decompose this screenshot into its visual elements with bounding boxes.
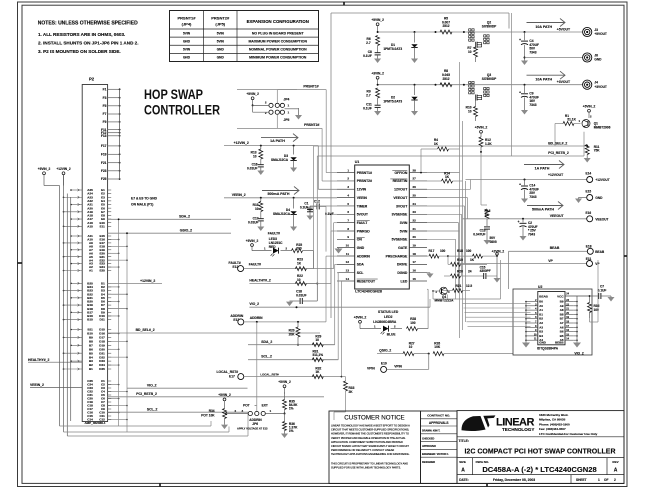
- svg-text:E11: E11: [100, 224, 106, 228]
- svg-text:JP6: JP6: [252, 422, 258, 426]
- svg-text:HOP SWAP: HOP SWAP: [144, 87, 203, 102]
- svg-text:APPROVED: APPROVED: [422, 445, 436, 448]
- net SDA_2 wire mid: [248, 340, 335, 345]
- diode D2 1PMT5.0AT3: [383, 85, 418, 116]
- resistor R9 2.7: [366, 88, 379, 98]
- svg-text:NOMINAL POWER CONSUMPTION: NOMINAL POWER CONSUMPTION: [249, 48, 307, 52]
- svg-text:Fax: (408)434-0507: Fax: (408)434-0507: [539, 427, 566, 431]
- capacitor C15 4300PF: [480, 264, 501, 282]
- svg-text:DRIVE: DRIVE: [397, 263, 408, 267]
- svg-text:R19: R19: [457, 258, 463, 262]
- svg-text:POT: POT: [243, 404, 250, 408]
- svg-text:JP4: JP4: [284, 98, 290, 102]
- svg-text:REV: REV: [612, 460, 618, 464]
- capacitor C17 0.01UF: [248, 212, 264, 232]
- svg-text:1630 McCarthy Blvd.: 1630 McCarthy Blvd.: [539, 413, 569, 417]
- capacitor C8 0.1UF: [363, 46, 381, 64]
- svg-text:1.2K: 1.2K: [485, 142, 492, 146]
- svg-text:51.1K: 51.1K: [567, 118, 576, 122]
- svg-text:Friday, December 05, 2003: Friday, December 05, 2003: [493, 478, 535, 482]
- svg-text:1. ALL RESISTORS ARE IN OHMS,: 1. ALL RESISTORS ARE IN OHMS, 0603.: [38, 32, 125, 37]
- svg-text:PRSNT2#: PRSNT2#: [211, 16, 230, 21]
- svg-text:10K: 10K: [434, 345, 441, 349]
- svg-text:SI7890DP: SI7890DP: [482, 24, 497, 28]
- svg-text:BLUE: BLUE: [387, 332, 396, 336]
- resistor R32 1K: [312, 366, 323, 378]
- svg-text:QSIO_2: QSIO_2: [379, 349, 391, 353]
- svg-text:7343: 7343: [529, 103, 536, 107]
- svg-text:BEAB: BEAB: [595, 250, 605, 254]
- terminal E17 LOCAL_RST#: [217, 370, 342, 379]
- net SDA_2 wire from connector: [108, 215, 231, 220]
- svg-text:A1: A1: [89, 269, 93, 273]
- svg-text:24: 24: [413, 202, 417, 206]
- svg-text:PRECHARGE: PRECHARGE: [386, 254, 408, 258]
- svg-text:1: 1: [347, 168, 349, 172]
- svg-text:5: 5: [347, 202, 349, 206]
- notes text block: [38, 21, 139, 55]
- svg-text:1K: 1K: [470, 258, 475, 262]
- resistor R1 51.1K: [555, 114, 581, 146]
- svg-text:PRSNT2#: PRSNT2#: [357, 179, 372, 183]
- svg-text:EXPANSION CONFIGURATION: EXPANSION CONFIGURATION: [247, 19, 309, 24]
- svg-text:SMAJ12CA: SMAJ12CA: [273, 212, 291, 216]
- svg-text:VEEOUT: VEEOUT: [393, 196, 408, 200]
- frame zone tick bottom: [160, 483, 487, 486]
- svg-text:F3: F3: [103, 96, 107, 100]
- svg-text:+5VIN_2: +5VIN_2: [246, 239, 259, 243]
- svg-text:SCL_2: SCL_2: [261, 355, 272, 359]
- terminal E15 GND: [575, 190, 603, 204]
- connector P2 bottom label AMP_352068-1: [84, 421, 105, 425]
- svg-text:18: 18: [413, 252, 417, 256]
- power flag +5VIN_2 at JP4: [246, 92, 259, 106]
- svg-text:GND: GND: [217, 48, 225, 52]
- wire U1 PWRGD to HEALTHY net: [306, 231, 337, 284]
- svg-text:NOTES: UNLESS OTHERWISE SPECI: NOTES: UNLESS OTHERWISE SPECIFIED: [38, 21, 138, 27]
- jumper JP6 POT EXT: [229, 404, 285, 431]
- svg-text:(JP4): (JP4): [182, 22, 192, 27]
- power flag +5VIN_2 at R34: [218, 393, 231, 408]
- flow arrow 500mA PATH right: [527, 202, 563, 212]
- resistor R18 100: [448, 249, 498, 258]
- terminal E19 VPIN: [367, 354, 429, 373]
- svg-text:VEEOUT: VEEOUT: [595, 217, 608, 221]
- ground at JP4 JP5: [285, 105, 303, 119]
- svg-text:1A PATH: 1A PATH: [535, 166, 550, 170]
- power flag +5VIN_2 at R12: [475, 126, 488, 138]
- svg-text:ON MALE (P1): ON MALE (P1): [131, 203, 153, 207]
- svg-text:2: 2: [265, 100, 267, 104]
- svg-text:LOCAL_RST#: LOCAL_RST#: [260, 372, 279, 376]
- svg-text:BEBB: BEBB: [555, 341, 564, 345]
- svg-text:5VIN: 5VIN: [183, 48, 191, 52]
- svg-text:SI7890DP: SI7890DP: [482, 77, 497, 81]
- svg-text:5VIN: 5VIN: [183, 31, 191, 35]
- terminal E14 +12VOUT: [586, 172, 610, 183]
- svg-text:STATUS LED: STATUS LED: [378, 310, 399, 314]
- svg-text:CIRCUIT BOARD LAYOUT MAY SIGNI: CIRCUIT BOARD LAYOUT MAY SIGNIFICANTLY A…: [331, 444, 409, 448]
- capacitor C1 at TIMER: [300, 202, 337, 221]
- svg-text:Milpitas, CA 95035: Milpitas, CA 95035: [539, 418, 566, 422]
- svg-text:+: +: [519, 91, 521, 95]
- svg-text:SDA: SDA: [357, 263, 365, 267]
- svg-text:E19: E19: [381, 361, 387, 365]
- svg-text:PERFORMANCE OR RELIABILITY. C: PERFORMANCE OR RELIABILITY. CONTACT LINE…: [331, 448, 394, 452]
- svg-text:R17: R17: [429, 249, 435, 253]
- svg-text:GND: GND: [183, 39, 191, 43]
- svg-text:E17: E17: [229, 375, 235, 379]
- svg-text:DC458A-A (-2) * LTC4240CGN28: DC458A-A (-2) * LTC4240CGN28: [482, 465, 596, 474]
- title block customer notice box: [329, 411, 421, 484]
- svg-text:9: 9: [347, 235, 349, 239]
- svg-text:F1: F1: [103, 88, 107, 92]
- svg-text:100: 100: [466, 249, 472, 253]
- transistor Q1 MMBT2906: [582, 115, 611, 130]
- label STATUS LED: [373, 310, 399, 324]
- terminal E18 BEAB: [550, 245, 605, 255]
- net VIO_2 wire mid: [249, 302, 430, 308]
- svg-text:11: 11: [346, 252, 350, 256]
- flow arrow 1A PATH left: [261, 134, 298, 144]
- svg-text:+5VOUT: +5VOUT: [557, 28, 571, 32]
- top bus wire y13: [331, 13, 512, 156]
- svg-text:+5VIN_2: +5VIN_2: [278, 380, 291, 384]
- net label FAULT# at LED3: [268, 232, 280, 236]
- svg-text:+12VIN_2: +12VIN_2: [56, 167, 70, 171]
- wires into U2 left: [463, 303, 531, 326]
- capacitor C13 0.047UF 50V 0805: [473, 227, 497, 245]
- svg-text:~: ~: [255, 404, 257, 408]
- svg-text:2512: 2512: [442, 24, 449, 28]
- svg-text:2.7: 2.7: [366, 94, 371, 98]
- svg-text:12VIN: 12VIN: [357, 188, 367, 192]
- svg-text:THIS CIRCUIT IS PROPRIETARY TO: THIS CIRCUIT IS PROPRIETARY TO LINEAR TE…: [331, 462, 408, 466]
- svg-text:+5VIN_2: +5VIN_2: [218, 393, 231, 397]
- ground at U2 right: [573, 342, 581, 348]
- svg-text:+: +: [519, 183, 521, 187]
- svg-text:LED2: LED2: [384, 315, 393, 319]
- flow arrow 500mA PATH left: [262, 187, 299, 196]
- svg-text:DRAWN: KIM T.: DRAWN: KIM T.: [422, 430, 440, 433]
- svg-text:PRSNT2#: PRSNT2#: [304, 123, 319, 127]
- svg-text:P2: P2: [89, 77, 95, 82]
- svg-text:100: 100: [410, 321, 416, 325]
- resistor R4 1K: [409, 138, 459, 172]
- resistor R36 1.37K 1%: [281, 414, 298, 439]
- svg-text:SCL_2: SCL_2: [147, 407, 158, 411]
- net +12VIN_2 wire from connector: [108, 279, 162, 284]
- net PCI_RSTB_2 wire from connector: [108, 392, 324, 397]
- svg-text:HEALTHY#_2: HEALTHY#_2: [28, 358, 50, 362]
- sheet title HOP SWAP CONTROLLER: [144, 87, 220, 118]
- svg-text:23: 23: [413, 210, 417, 214]
- svg-text:0.1UF: 0.1UF: [598, 288, 607, 292]
- bottom loop wires under connector: [60, 412, 249, 436]
- svg-text:BD_SEL#_2: BD_SEL#_2: [136, 328, 155, 332]
- svg-text:16: 16: [413, 268, 417, 272]
- svg-text:R20: R20: [457, 270, 463, 274]
- capacitor C16 0.01UF: [247, 159, 264, 175]
- svg-text:5VIN: 5VIN: [217, 39, 225, 43]
- svg-text:10A PATH: 10A PATH: [535, 78, 552, 82]
- svg-text:GND: GND: [594, 58, 602, 62]
- svg-text:+: +: [518, 220, 520, 224]
- svg-text:C14: C14: [87, 418, 93, 422]
- LED LED3 LN1251C RED: [252, 237, 292, 256]
- svg-text:GSIO_2: GSIO_2: [180, 229, 192, 233]
- svg-text:SIZE: SIZE: [459, 460, 466, 464]
- svg-text:6: 6: [347, 210, 349, 214]
- svg-text:LTC Confidential-For Customer: LTC Confidential-For Customer Use Only: [539, 432, 598, 436]
- svg-text:VIO_2: VIO_2: [147, 383, 157, 387]
- svg-text:F9: F9: [103, 120, 107, 124]
- svg-text:2: 2: [265, 111, 267, 115]
- svg-text:100: 100: [440, 249, 446, 253]
- op-amp U1 pin rows: [337, 168, 427, 283]
- svg-text:TECHNOLOGY: TECHNOLOGY: [502, 427, 534, 432]
- net label +12VIN_2 rail: [224, 141, 337, 190]
- svg-text:PRSNT1#: PRSNT1#: [357, 171, 372, 175]
- terminal E11 VP: [460, 257, 601, 267]
- svg-text:1: 1: [264, 246, 266, 250]
- flow arrow 10A PATH rail2: [527, 71, 566, 82]
- power flag +5VIN_2 at divider: [278, 380, 291, 394]
- svg-text:8: 8: [347, 227, 349, 231]
- connector P2 A-pin rows lower: [63, 234, 128, 273]
- svg-text:1: 1: [288, 104, 290, 108]
- svg-text:GND: GND: [539, 341, 547, 345]
- svg-text:BEAB: BEAB: [539, 295, 548, 299]
- svg-text:PCI_RSTB_2: PCI_RSTB_2: [548, 151, 569, 155]
- svg-text:1K: 1K: [297, 261, 302, 265]
- svg-text:APPROVALS: APPROVALS: [429, 421, 449, 425]
- svg-text:VEEIN_2: VEEIN_2: [30, 383, 44, 387]
- svg-text:2. INSTALL SHUNTS ON JP1-JP6: 2. INSTALL SHUNTS ON JP1-JP6 PIN 1 AND 2…: [38, 41, 139, 46]
- svg-text:MINIMUM POWER CONSUMPTION: MINIMUM POWER CONSUMPTION: [249, 56, 307, 60]
- resistor R25 200: [292, 243, 314, 269]
- svg-text:+3VIN_2: +3VIN_2: [371, 72, 384, 76]
- svg-text:EXT: EXT: [262, 404, 268, 408]
- net label VEEOUT wire: [463, 214, 587, 220]
- resistor R35 84.5K 1%: [283, 393, 299, 415]
- svg-text:12: 12: [346, 260, 350, 264]
- svg-text:4300PF: 4300PF: [480, 269, 491, 273]
- svg-text:F5: F5: [103, 104, 107, 108]
- diode D1 1PMT5.0AT3: [383, 32, 418, 63]
- op-amp U1 LTC4240CGN28 body: [355, 160, 410, 293]
- capacitor C7 0.1UF: [589, 285, 615, 302]
- net GSIO_2 wire from connector: [108, 229, 231, 234]
- resistor R26 10K: [433, 341, 513, 355]
- resistor R5 0.007 2512: [440, 17, 452, 35]
- frame zone tick left: [18, 262, 23, 264]
- svg-text:+: +: [519, 38, 521, 42]
- capacitor C2 470UF 25V 7343: [518, 219, 538, 241]
- svg-text:SDA_2: SDA_2: [261, 340, 272, 344]
- svg-text:1: 1: [374, 324, 376, 328]
- svg-text:PRSNT1#: PRSNT1#: [303, 84, 318, 88]
- svg-text:LOCAL_RST#: LOCAL_RST#: [217, 370, 239, 374]
- svg-text:SDA_2: SDA_2: [179, 215, 190, 219]
- resistor R20 24: [444, 270, 484, 279]
- wire U1 SCL to SCL_2 net: [323, 273, 338, 360]
- wire jumpers to gnd: [285, 105, 299, 108]
- svg-text:TECHNOLOGY APPLICATIONS ENGINE: TECHNOLOGY APPLICATIONS ENGINEERING FOR …: [331, 452, 410, 456]
- vertical drop wires from SDA GSIO: [118, 218, 128, 432]
- net label +12VOUT wire: [466, 173, 587, 180]
- transistor Q2 SI7890DP: [469, 21, 497, 48]
- capacitor C14 470UF 25V 7343: [519, 180, 539, 204]
- svg-text:10A PATH: 10A PATH: [535, 25, 552, 29]
- svg-text:0.1UF: 0.1UF: [300, 206, 309, 210]
- svg-text:VIO_2: VIO_2: [249, 302, 259, 306]
- svg-text:SUPPLIED FOR USE WITH LINEAR T: SUPPLIED FOR USE WITH LINEAR TECHNOLOGY …: [331, 466, 401, 470]
- connector P2 B-pin rows upper: [63, 281, 128, 321]
- svg-text:+12VIN_2: +12VIN_2: [234, 141, 249, 145]
- title block approvals column: [421, 411, 458, 484]
- capacitor C4 470UF 50V 7343: [519, 32, 539, 65]
- resistor R23 1K: [295, 258, 306, 271]
- svg-text:U2: U2: [538, 285, 542, 289]
- LED LED2 BLUE: [360, 324, 402, 336]
- svg-text:1K: 1K: [445, 175, 450, 179]
- svg-text:VERIFY PROPER AND RELIABLE OPE: VERIFY PROPER AND RELIABLE OPERATION IN …: [331, 436, 406, 440]
- jumper JP5: [253, 105, 290, 122]
- transistor Q4 MMBT2222A: [432, 287, 454, 302]
- connector J6 GND: [525, 53, 603, 62]
- svg-text:24: 24: [468, 270, 472, 274]
- svg-text:SCL: SCL: [357, 271, 364, 275]
- svg-text:10: 10: [253, 155, 257, 159]
- resistor R15 10: [253, 198, 263, 212]
- flow arrow 10A PATH rail1: [527, 19, 566, 30]
- connector P2 C-pin rows: [87, 379, 128, 422]
- net label HEALTHY#_2 left: [28, 358, 82, 362]
- svg-text:VEEOUT: VEEOUT: [550, 214, 565, 218]
- resistor R13 10: [251, 146, 263, 159]
- net SCL_2 wire mid: [248, 355, 338, 360]
- connector P2 outline: [82, 77, 107, 422]
- svg-text:7: 7: [347, 218, 349, 222]
- svg-text:HOWEVER, IT REMAINS THE CUSTOM: HOWEVER, IT REMAINS THE CUSTOMER'S RESPO…: [331, 432, 409, 436]
- net SCL_2 wire from connector: [108, 407, 248, 412]
- svg-text:13: 13: [346, 268, 350, 272]
- svg-text:75K: 75K: [594, 149, 601, 153]
- svg-text:5VSENSE: 5VSENSE: [392, 238, 408, 242]
- svg-text:F19: F19: [101, 153, 107, 157]
- svg-text:GND: GND: [595, 196, 603, 200]
- svg-text:21: 21: [413, 227, 417, 231]
- svg-text:FAULT: FAULT: [357, 221, 369, 225]
- svg-text:2K: 2K: [349, 390, 354, 394]
- svg-text:0805: 0805: [490, 240, 497, 244]
- resistor R6 2.7: [366, 36, 379, 46]
- svg-text:+3VOUT: +3VOUT: [594, 85, 607, 89]
- svg-text:GATE: GATE: [398, 246, 408, 250]
- svg-text:DATE:: DATE:: [459, 478, 469, 482]
- svg-text:1%: 1%: [289, 407, 294, 411]
- svg-text:F25: F25: [101, 177, 107, 181]
- svg-text:RED: RED: [269, 245, 276, 249]
- svg-text:CONTRACT NO.: CONTRACT NO.: [427, 414, 450, 418]
- svg-text:2: 2: [436, 290, 438, 294]
- svg-text:PRSNT1#: PRSNT1#: [177, 16, 196, 21]
- net PCI_RSTB_2 wire right: [317, 132, 584, 156]
- logo Linear Technology: [461, 413, 597, 436]
- wire U1 SDA to SDA_2 net: [323, 264, 337, 344]
- svg-text:APPLICATION. COMPONENT SUBSTI: APPLICATION. COMPONENT SUBSTITUTION AND …: [331, 440, 403, 444]
- svg-text:VPIN: VPIN: [367, 366, 375, 370]
- svg-text:(JP5): (JP5): [215, 22, 225, 27]
- svg-text:2: 2: [590, 115, 592, 119]
- svg-text:B1: B1: [89, 367, 93, 371]
- svg-text:E7 & E9 TO GND: E7 & E9 TO GND: [131, 197, 158, 201]
- buffer U2 outer box: [513, 285, 592, 355]
- svg-text:HEALTHY#_2: HEALTHY#_2: [249, 279, 271, 283]
- resistor R28 100: [407, 289, 429, 330]
- svg-text:500mA PATH: 500mA PATH: [268, 192, 290, 196]
- svg-text:1: 1: [270, 409, 272, 413]
- net PRSNT2# wire: [237, 114, 337, 181]
- svg-text:RESETOUT: RESETOUT: [357, 279, 376, 283]
- connector P2 A-pin rows upper: [63, 188, 111, 228]
- svg-text:27: 27: [413, 177, 417, 181]
- svg-text:+5VOUT: +5VOUT: [594, 32, 607, 36]
- svg-text:VIO_2: VIO_2: [574, 351, 584, 355]
- power flag +3VIN_2 rail2: [371, 72, 384, 85]
- svg-text:BD_SEL#_2: BD_SEL#_2: [548, 141, 567, 145]
- svg-text:GND: GND: [183, 56, 191, 60]
- svg-text:PCI_RSTB_2: PCI_RSTB_2: [136, 392, 157, 396]
- svg-text:SMAJ12CA: SMAJ12CA: [271, 158, 289, 162]
- svg-text:C12: C12: [99, 418, 105, 422]
- svg-text:ADDRIN: ADDRIN: [357, 254, 371, 258]
- svg-text:CUSTOMER NOTICE: CUSTOMER NOTICE: [344, 414, 404, 421]
- svg-text:SHEET: SHEET: [576, 478, 587, 482]
- resistor R17 100: [427, 249, 449, 258]
- power flag +5VIN_2 at LED2: [354, 316, 367, 329]
- resistor R27 10: [403, 341, 430, 355]
- capacitor C12 0.1UF: [306, 200, 333, 252]
- svg-text:R18: R18: [457, 249, 463, 253]
- power flag +5VIN_2 at LED3: [246, 239, 259, 251]
- wire rail1 main: [377, 31, 583, 33]
- capacitor C18 0.01UF: [286, 146, 317, 306]
- svg-text:+5VIN_2: +5VIN_2: [583, 105, 596, 109]
- svg-text:2.7: 2.7: [366, 41, 371, 45]
- svg-text:ENGINEER: VICTOR F.: ENGINEER: VICTOR F.: [422, 453, 449, 456]
- svg-text:10: 10: [409, 345, 413, 349]
- svg-text:CIRCUIT THAT MEETS CUSTOMER-SU: CIRCUIT THAT MEETS CUSTOMER-SUPPLIED SPE…: [331, 428, 409, 432]
- svg-text:U1: U1: [355, 160, 360, 164]
- svg-text:25: 25: [413, 193, 417, 197]
- resistor R31 511 1%: [312, 350, 323, 362]
- svg-text:BEAB: BEAB: [550, 246, 560, 250]
- svg-text:F13: F13: [101, 134, 107, 138]
- svg-text:F23: F23: [101, 169, 107, 173]
- frame zone tick top: [343, 2, 345, 5]
- net label VEEIN_2 rail: [224, 193, 337, 199]
- svg-text:12.5: 12.5: [466, 284, 472, 288]
- net label VEEIN_2 left: [30, 383, 82, 387]
- svg-text:GND: GND: [217, 56, 225, 60]
- svg-text:26: 26: [413, 185, 417, 189]
- connector J4 +3VOUT: [583, 80, 607, 89]
- svg-text:12VOUT: 12VOUT: [394, 188, 408, 192]
- svg-text:0.01UF: 0.01UF: [248, 221, 259, 225]
- svg-text:AMP_352068-1: AMP_352068-1: [84, 421, 105, 425]
